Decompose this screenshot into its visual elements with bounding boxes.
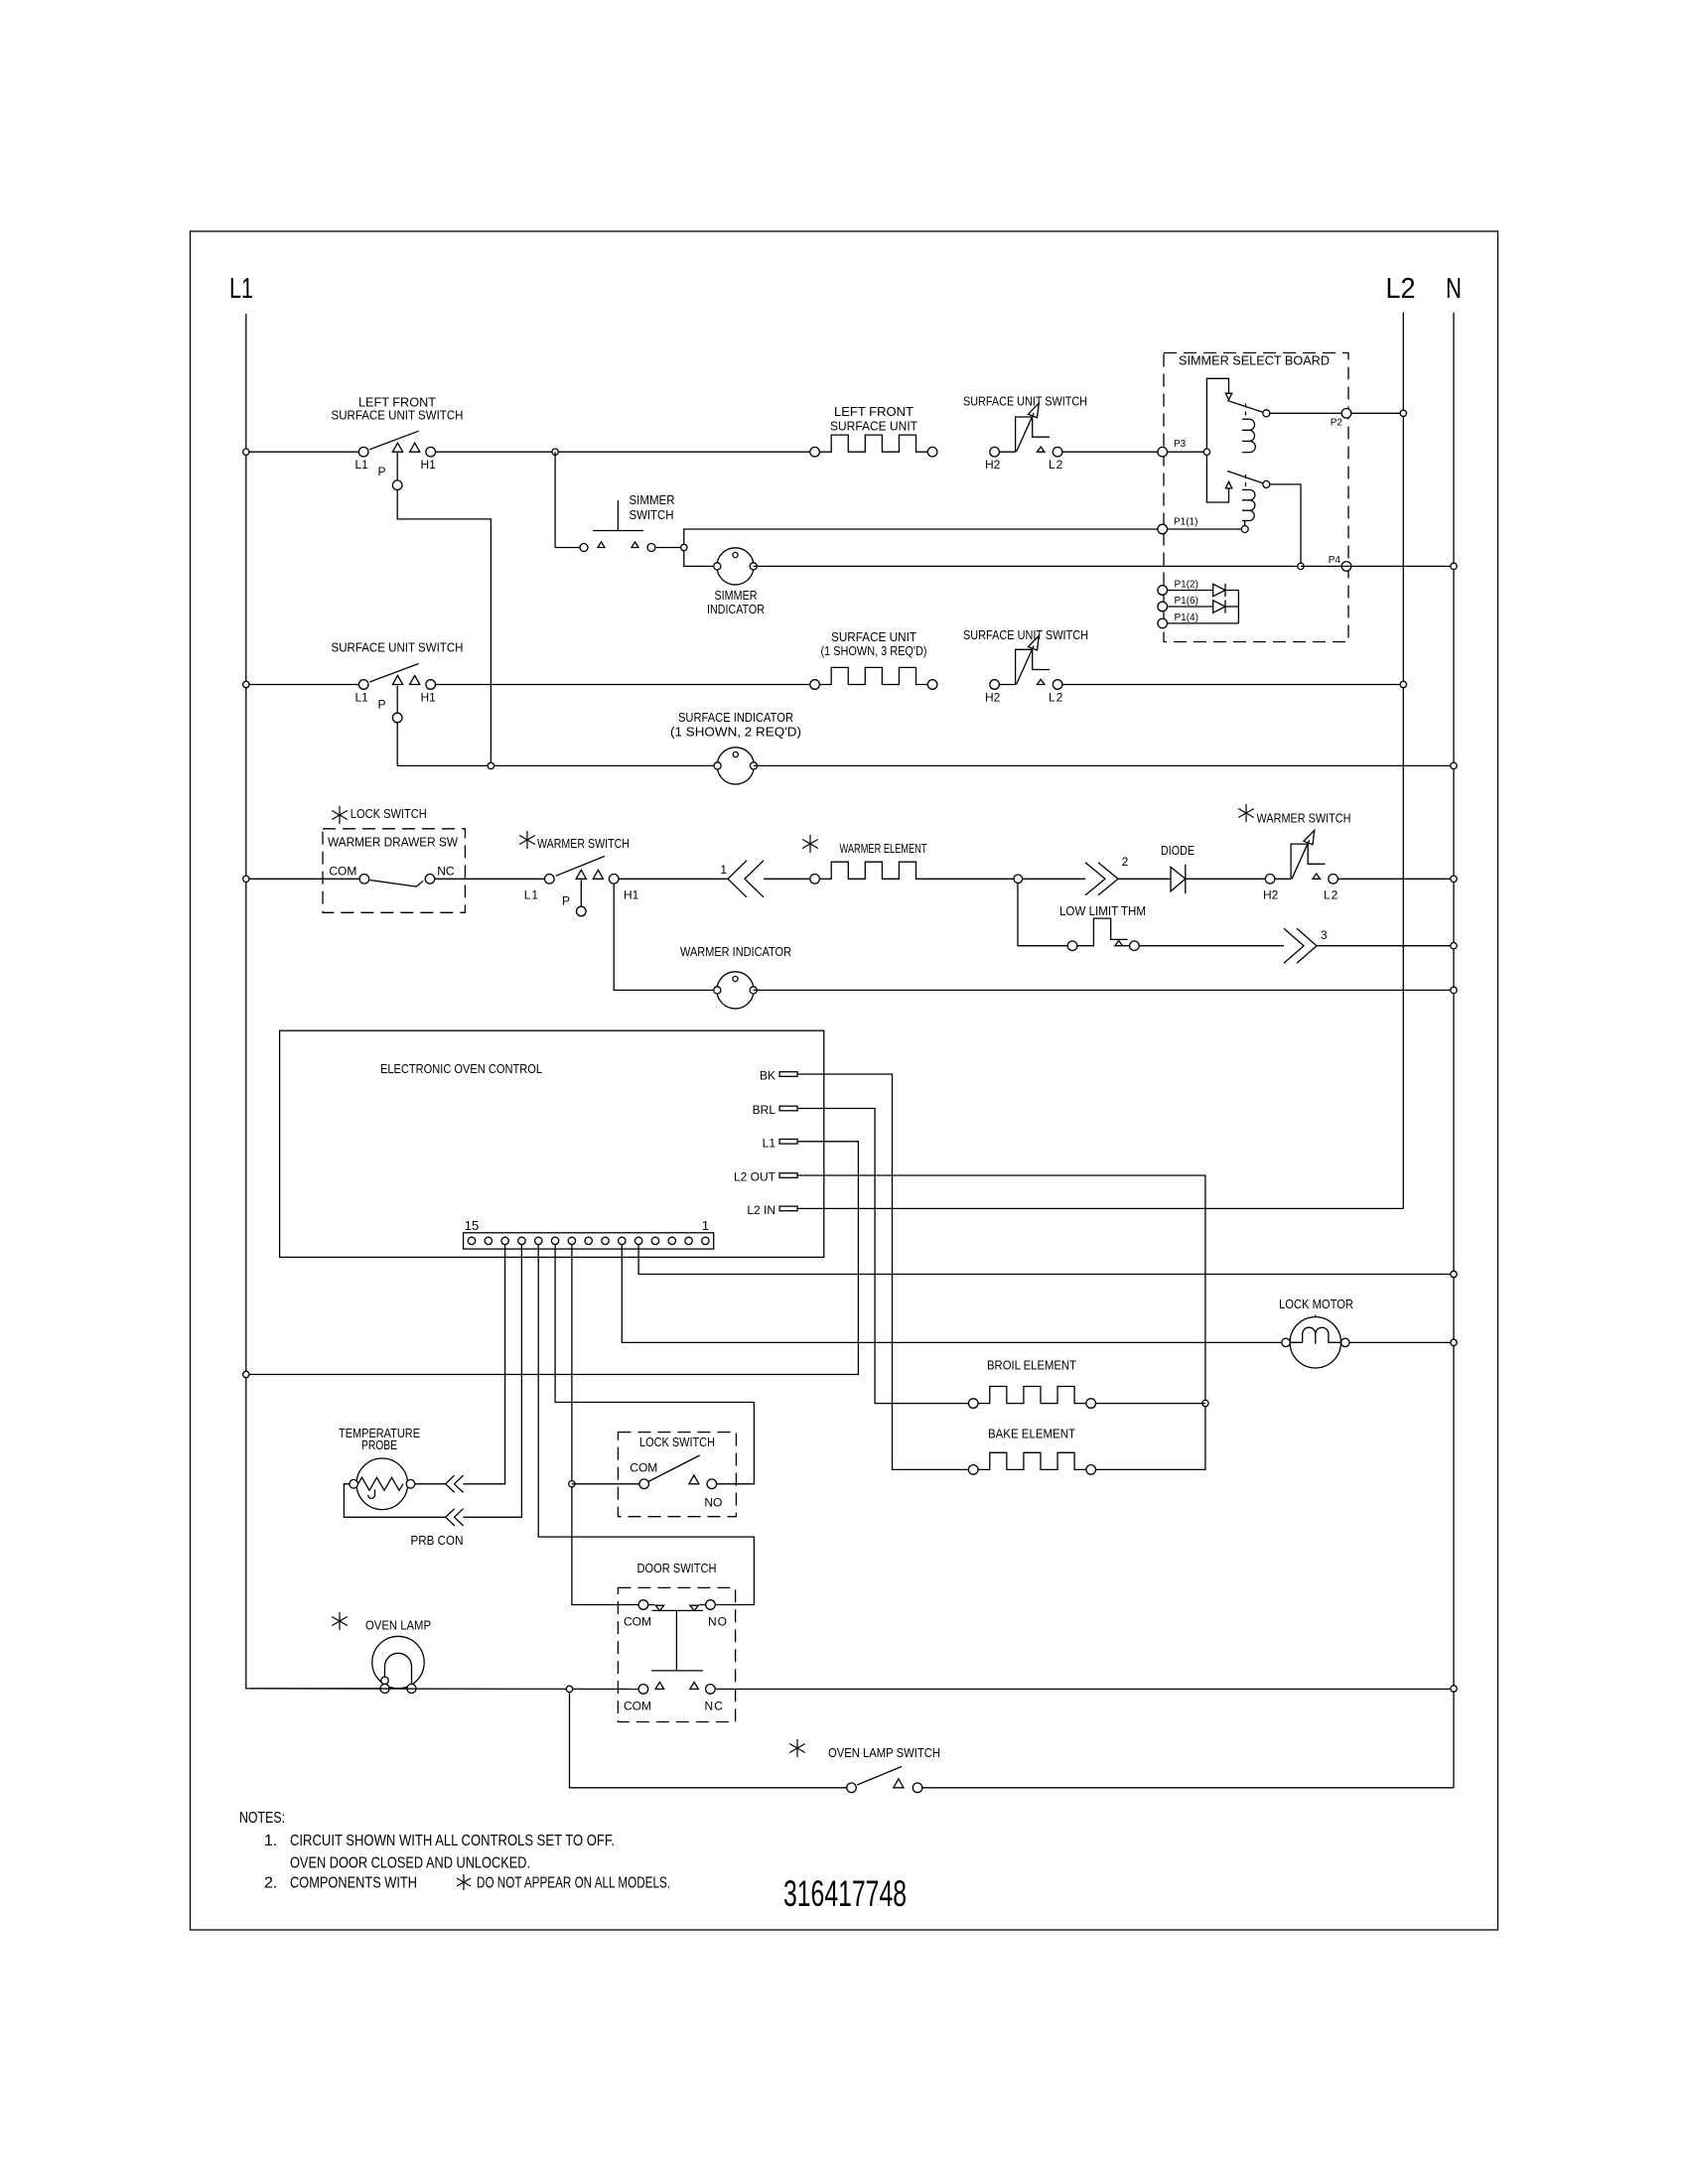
svg-text:OVEN LAMP: OVEN LAMP xyxy=(365,1618,431,1633)
wire lamp switch to N bus xyxy=(922,1787,1454,1789)
node surface indicator / N bus xyxy=(1451,762,1457,768)
diode D2 xyxy=(1168,606,1213,608)
connector chevron 3 xyxy=(1284,928,1304,963)
wire warmer indicator drop xyxy=(614,884,717,990)
wire probe right to chevron xyxy=(415,1483,446,1485)
node row2 / L2 bus xyxy=(1400,681,1406,687)
node warmer indicator / N bus xyxy=(1451,987,1457,993)
svg-text:SURFACE UNIT SWITCH: SURFACE UNIT SWITCH xyxy=(963,627,1088,642)
svg-text:DOOR SWITCH: DOOR SWITCH xyxy=(637,1561,717,1575)
svg-text:SURFACE UNIT SWITCH: SURFACE UNIT SWITCH xyxy=(332,407,464,422)
connector chevron prb con xyxy=(446,1509,455,1526)
wire pin7 tap to lock COM xyxy=(572,1483,639,1485)
label warmer switch xyxy=(526,831,528,849)
svg-text:2: 2 xyxy=(1122,855,1129,869)
svg-text:SURFACE UNIT: SURFACE UNIT xyxy=(831,629,916,644)
door switch dashed box xyxy=(618,1587,735,1721)
svg-text:SIMMER: SIMMER xyxy=(630,492,675,507)
wire low limit branch xyxy=(1018,883,1067,946)
connector pins xyxy=(468,1237,475,1244)
svg-text:SIMMER: SIMMER xyxy=(715,588,758,603)
svg-text:WARMER SWITCH: WARMER SWITCH xyxy=(1257,811,1351,826)
wire pin4 to prb con xyxy=(463,1245,521,1518)
label warmer element xyxy=(809,835,811,853)
svg-text:BK: BK xyxy=(760,1069,775,1083)
svg-text:P: P xyxy=(378,465,386,478)
relay K2 switch xyxy=(1206,455,1228,502)
svg-text:WARMER INDICATOR: WARMER INDICATOR xyxy=(680,944,791,959)
svg-text:L2 IN: L2 IN xyxy=(747,1203,775,1217)
svg-text:COM: COM xyxy=(329,865,356,879)
svg-text:L1: L1 xyxy=(355,691,369,705)
svg-text:H1: H1 xyxy=(624,887,639,901)
svg-text:1: 1 xyxy=(720,863,727,877)
svg-text:WARMER SWITCH: WARMER SWITCH xyxy=(537,836,630,851)
warmer drawer switch xyxy=(359,875,369,885)
svg-text:WARMER ELEMENT: WARMER ELEMENT xyxy=(840,841,927,856)
svg-text:NO: NO xyxy=(704,1496,722,1510)
svg-text:316417748: 316417748 xyxy=(783,1872,907,1914)
svg-text:L1: L1 xyxy=(355,458,369,472)
lock switch xyxy=(639,1479,649,1489)
wire K1 to P2 xyxy=(1270,412,1341,414)
svg-text:P1(4): P1(4) xyxy=(1175,613,1198,623)
node lamp row / door branch xyxy=(566,1686,572,1692)
svg-text:PROBE: PROBE xyxy=(361,1437,397,1452)
wire simmer indicator to P4 row xyxy=(754,565,1301,567)
node pin11 / N bus xyxy=(1451,1271,1457,1277)
svg-text:SWITCH: SWITCH xyxy=(630,507,674,522)
svg-text:LOCK MOTOR: LOCK MOTOR xyxy=(1279,1297,1353,1311)
svg-text:WARMER DRAWER SW: WARMER DRAWER SW xyxy=(328,835,459,850)
svg-text:COMPONENTS WITH: COMPONENTS WITH xyxy=(290,1875,417,1892)
svg-text:SURFACE UNIT SWITCH: SURFACE UNIT SWITCH xyxy=(332,639,464,654)
wire lock motor to N xyxy=(1349,1341,1454,1343)
wire simmer switch out xyxy=(656,547,684,549)
electronic oven control box xyxy=(280,1030,824,1257)
door switch linkage xyxy=(652,1609,703,1611)
svg-text:SIMMER SELECT BOARD: SIMMER SELECT BOARD xyxy=(1179,353,1330,368)
wire P2 to L2 bus xyxy=(1351,412,1404,414)
svg-text:DIODE: DIODE xyxy=(1161,843,1195,858)
svg-text:L1: L1 xyxy=(763,1136,776,1150)
svg-text:NOTES:: NOTES: xyxy=(239,1810,285,1827)
terminal P1(6) xyxy=(1158,602,1168,612)
node low limit / N bus xyxy=(1451,943,1457,949)
terminal P3 xyxy=(1158,447,1168,457)
wire row2 to L2 bus xyxy=(1062,684,1403,686)
heater element bake xyxy=(968,1465,978,1475)
svg-text:15: 15 xyxy=(465,1218,479,1233)
page border frame xyxy=(191,231,1498,1930)
wire indicator row xyxy=(397,764,717,766)
simmer select board dashed box xyxy=(1164,353,1348,642)
wire K2 coil to P1(1) terminal xyxy=(1244,521,1246,526)
svg-text:L2: L2 xyxy=(1049,691,1063,705)
wire row2 switch to element xyxy=(436,684,810,686)
svg-text:L2 OUT: L2 OUT xyxy=(734,1170,776,1184)
svg-text:COM: COM xyxy=(624,1615,651,1629)
svg-text:DO NOT APPEAR ON ALL MODELS.: DO NOT APPEAR ON ALL MODELS. xyxy=(477,1875,670,1892)
heater element warmer xyxy=(810,875,820,885)
wire surface indicator to N xyxy=(754,764,1454,766)
wire broil to L2 OUT node xyxy=(1095,1403,1205,1405)
wire L1 out to L1 bus xyxy=(246,1142,859,1375)
wire oven lamp row xyxy=(250,1688,638,1691)
connector strip xyxy=(464,1233,714,1249)
terminal P4 xyxy=(1341,562,1351,572)
wire P warmer switch xyxy=(580,880,582,906)
terminal P SW3 xyxy=(392,713,402,723)
svg-text:SURFACE INDICATOR: SURFACE INDICATOR xyxy=(678,710,793,725)
temperature probe xyxy=(356,1458,408,1510)
svg-text:H1: H1 xyxy=(421,691,437,705)
wire P1(4) to common xyxy=(1168,622,1239,624)
svg-text:BAKE ELEMENT: BAKE ELEMENT xyxy=(988,1427,1075,1441)
wire BRL to broil element xyxy=(797,1109,968,1404)
node P feeds join xyxy=(488,762,493,768)
svg-text:OVEN LAMP SWITCH: OVEN LAMP SWITCH xyxy=(828,1745,940,1760)
wire simmer branch to switch xyxy=(555,547,579,549)
wire chevron to warmer element xyxy=(764,878,810,880)
node L1 return / L1 bus xyxy=(243,1371,249,1377)
svg-text:3: 3 xyxy=(1321,928,1328,942)
terminal P SW1 xyxy=(392,480,402,490)
relay K1 coil xyxy=(1245,404,1247,416)
terminal P1(2) xyxy=(1158,586,1168,596)
warmer drawer sw dashed box xyxy=(323,829,465,913)
node relay feed xyxy=(1203,449,1209,455)
wire L1 bus xyxy=(246,314,385,1689)
simmer switch xyxy=(580,544,588,552)
simmer indicator xyxy=(717,548,754,585)
wire chevron 2 to diode xyxy=(1118,878,1171,880)
svg-text:L2: L2 xyxy=(1386,273,1416,305)
wire drawer sw to warmer switch xyxy=(435,878,545,880)
svg-text:(1 SHOWN, 3 REQ'D): (1 SHOWN, 3 REQ'D) xyxy=(821,643,927,658)
svg-text:H1: H1 xyxy=(421,458,437,472)
warmer indicator xyxy=(717,972,754,1009)
wire P3 to relay junction xyxy=(1168,451,1207,453)
node L2 OUT / broil xyxy=(1202,1400,1208,1406)
heater element surface unit row2 xyxy=(810,680,820,690)
svg-text:P3: P3 xyxy=(1174,439,1187,450)
warmer switch xyxy=(545,875,555,885)
svg-text:CIRCUIT SHOWN WITH ALL CONTROL: CIRCUIT SHOWN WITH ALL CONTROLS SET TO O… xyxy=(290,1833,615,1849)
svg-text:H2: H2 xyxy=(985,458,1001,472)
node door pole2 / N bus xyxy=(1451,1686,1457,1692)
svg-text:P4: P4 xyxy=(1329,555,1341,566)
infinite switch SW2 right of row1 xyxy=(990,447,1000,457)
wire lamp row branch to lamp switch xyxy=(570,1693,847,1788)
wire H1 to chevron 1 xyxy=(619,878,728,880)
svg-text:L2: L2 xyxy=(1049,458,1063,472)
wire BK to bake element xyxy=(797,1074,968,1469)
svg-text:L1: L1 xyxy=(229,273,253,305)
svg-text:PRB CON: PRB CON xyxy=(411,1533,464,1548)
wire P SW1 to indicator feed xyxy=(397,490,491,766)
wire simmer out down to indicator xyxy=(684,551,717,567)
svg-text:COM: COM xyxy=(624,1700,651,1713)
svg-text:1.: 1. xyxy=(264,1833,277,1849)
svg-text:NO: NO xyxy=(708,1615,728,1629)
svg-text:BRL: BRL xyxy=(753,1103,776,1117)
relay K2 coil xyxy=(1245,475,1247,486)
wire pin11 to N bus xyxy=(638,1245,1454,1275)
svg-text:P1(1): P1(1) xyxy=(1174,517,1197,528)
diode D1 xyxy=(1168,590,1213,592)
node warmer element out xyxy=(1014,875,1023,884)
node lock motor / N bus xyxy=(1451,1339,1457,1345)
wire N bus xyxy=(1453,313,1455,1789)
svg-text:1: 1 xyxy=(702,1218,709,1233)
node L1 bus / row2 xyxy=(246,684,359,686)
connector chevron probe xyxy=(446,1475,455,1492)
svg-text:LOW LIMIT THM: LOW LIMIT THM xyxy=(1059,903,1146,918)
svg-text:LOCK SWITCH: LOCK SWITCH xyxy=(639,1434,715,1449)
lock motor xyxy=(1290,1317,1340,1368)
node row3 / N bus xyxy=(1451,876,1457,882)
wire probe left loop xyxy=(344,1484,445,1518)
node L1 bus / row1 xyxy=(246,451,359,453)
terminal P1(1) xyxy=(1158,524,1168,534)
label simmer select board xyxy=(1177,353,1331,366)
svg-text:P1(6): P1(6) xyxy=(1175,596,1198,607)
svg-text:P: P xyxy=(378,698,386,712)
warmer switch right xyxy=(1245,804,1247,822)
svg-text:LEFT FRONT: LEFT FRONT xyxy=(834,404,914,419)
svg-text:COM: COM xyxy=(630,1461,657,1475)
wire L2 IN to L2 bus xyxy=(797,1207,1403,1209)
heater element left front surface unit xyxy=(810,447,820,457)
svg-text:NC: NC xyxy=(437,865,455,879)
svg-text:N: N xyxy=(1446,273,1462,305)
svg-text:ELECTRONIC OVEN CONTROL: ELECTRONIC OVEN CONTROL xyxy=(380,1061,542,1076)
low limit thermostat xyxy=(1067,941,1077,951)
node L1 bus / row3 xyxy=(246,878,359,880)
relay K1 switch xyxy=(1206,378,1228,449)
wire L2 bus xyxy=(1402,313,1404,1209)
node simmer out xyxy=(681,544,687,550)
wire pin7 to com terminals xyxy=(572,1245,638,1605)
svg-text:OVEN DOOR CLOSED AND UNLOCKED.: OVEN DOOR CLOSED AND UNLOCKED. xyxy=(290,1855,530,1872)
wire warmer indicator to N xyxy=(754,989,1454,991)
wire P of SW1 down xyxy=(396,453,398,480)
left front surface unit switch SW1 xyxy=(358,447,368,457)
wire simmer branch down xyxy=(554,452,556,547)
wire L2 OUT to elements xyxy=(797,1175,1205,1469)
svg-text:P: P xyxy=(562,893,570,907)
label oven lamp switch xyxy=(796,1739,798,1757)
surface indicator xyxy=(717,748,754,784)
svg-text:SURFACE UNIT SWITCH: SURFACE UNIT SWITCH xyxy=(963,393,1087,408)
wire P4 to N bus xyxy=(1301,565,1454,567)
svg-text:LOCK SWITCH: LOCK SWITCH xyxy=(351,806,427,821)
svg-text:(1 SHOWN, 2 REQ'D): (1 SHOWN, 2 REQ'D) xyxy=(670,725,801,740)
wire row1 L2cir to P3 xyxy=(1062,451,1158,453)
svg-text:L2: L2 xyxy=(1324,888,1338,902)
heater element broil xyxy=(968,1399,978,1409)
infinite switch SW4 right of row2 xyxy=(990,680,1000,690)
wire diode to H2 xyxy=(1186,878,1266,880)
wire diode common bar xyxy=(1237,591,1239,623)
lock switch dashed box xyxy=(618,1433,736,1517)
wire pin3 to probe xyxy=(463,1245,504,1484)
wire low limit to chevron 3 xyxy=(1139,945,1284,947)
svg-text:H2: H2 xyxy=(1263,888,1279,902)
oven lamp switch xyxy=(847,1783,857,1793)
terminal P2 xyxy=(1341,409,1351,419)
door switch pole 2 xyxy=(638,1685,648,1695)
svg-text:INDICATOR: INDICATOR xyxy=(707,602,765,616)
wire row3 to N bus xyxy=(1337,878,1454,880)
connector chevron 2 xyxy=(1085,863,1105,895)
wire junction to chevron 2 xyxy=(1023,878,1085,880)
wire P of SW3 down xyxy=(396,686,398,714)
wire K2 contact to P4 xyxy=(1270,484,1301,563)
svg-text:P2: P2 xyxy=(1331,418,1343,429)
wire pin10 to lock motor xyxy=(622,1245,1282,1343)
wire P1(1) to coil xyxy=(1168,528,1242,530)
wire pin6 to lock switch NO xyxy=(555,1245,754,1484)
wire P SW3 down to indicator row xyxy=(396,723,398,766)
terminal P1(4) xyxy=(1158,618,1168,628)
surface unit switch SW3 xyxy=(358,680,368,690)
wire door pole2 to N bus xyxy=(715,1688,1454,1690)
svg-text:L1: L1 xyxy=(524,887,539,901)
svg-text:2.: 2. xyxy=(264,1875,277,1892)
svg-text:P1(2): P1(2) xyxy=(1175,580,1198,591)
svg-text:BROIL ELEMENT: BROIL ELEMENT xyxy=(987,1358,1076,1373)
svg-text:NC: NC xyxy=(705,1700,724,1713)
svg-text:H2: H2 xyxy=(985,691,1001,705)
node P2 / L2 bus xyxy=(1400,410,1406,416)
node K2 out / P4 row xyxy=(1298,563,1304,569)
node P4 / N bus xyxy=(1451,563,1457,569)
diode D3 xyxy=(1171,867,1186,890)
svg-text:SURFACE UNIT: SURFACE UNIT xyxy=(830,418,917,433)
connector chevron 1 xyxy=(728,861,747,897)
door switch pole 1 xyxy=(638,1600,648,1610)
node pin7 lock switch tap xyxy=(569,1481,575,1487)
wire simmer out up to P1(1) xyxy=(684,529,1158,544)
label lock switch (warmer drawer) xyxy=(339,806,341,824)
wire pin5 to door switch NO xyxy=(538,1245,754,1605)
label oven lamp xyxy=(339,1612,341,1630)
oven lamp xyxy=(372,1636,424,1688)
wire row1 switch to element xyxy=(436,451,810,453)
node row1 simmer tap xyxy=(552,449,558,455)
wire chevron 3 to N xyxy=(1317,945,1454,947)
terminal P warmer switch xyxy=(577,906,587,916)
